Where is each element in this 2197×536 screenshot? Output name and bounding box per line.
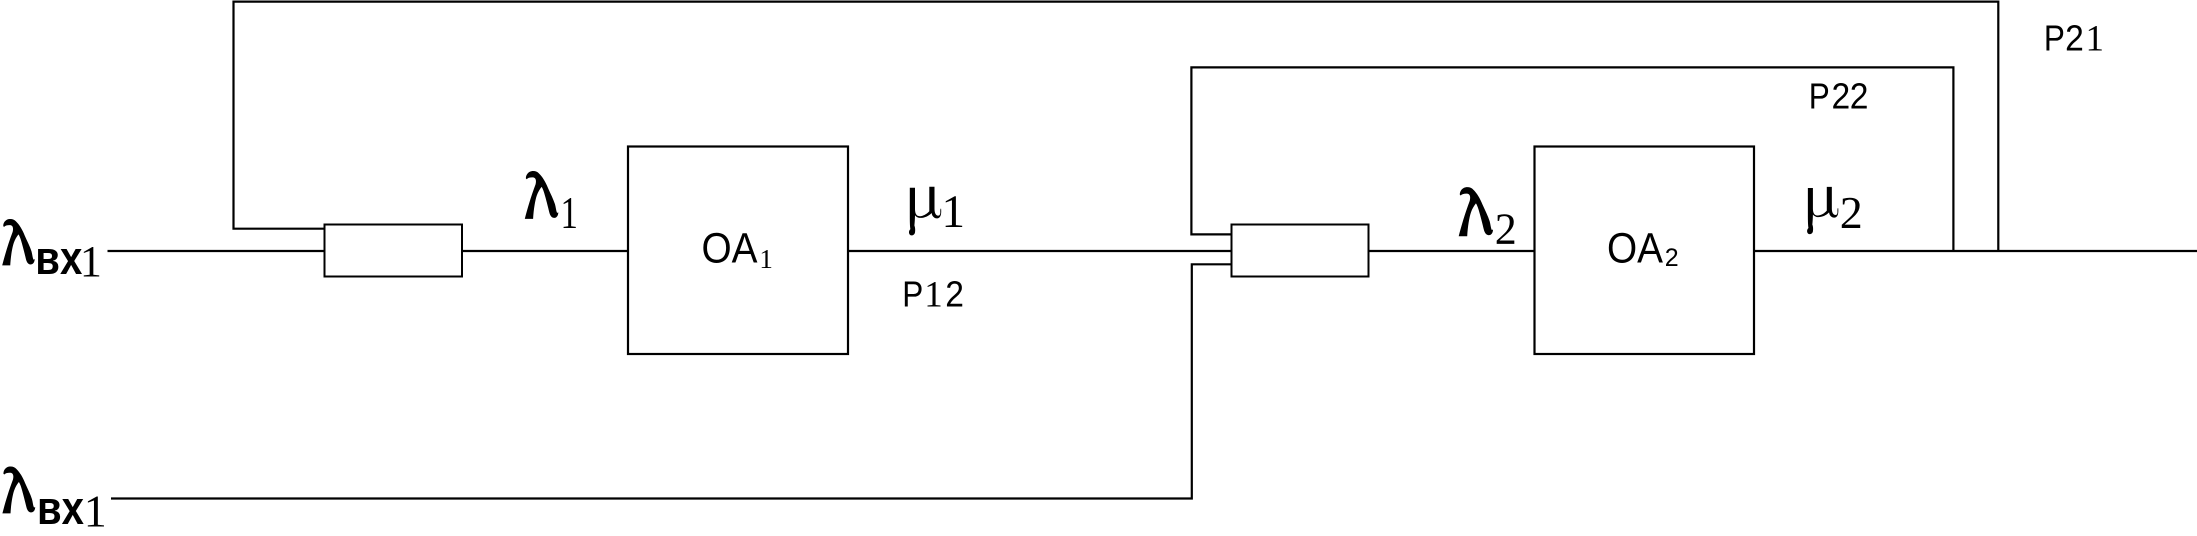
svg-text:2: 2	[1832, 75, 1851, 116]
server box OA1	[628, 147, 848, 355]
svg-text:1: 1	[2086, 19, 2105, 60]
svg-text:OA: OA	[702, 225, 758, 273]
svg-text:2: 2	[1850, 75, 1869, 116]
svg-text:1: 1	[84, 486, 107, 536]
svg-text:P: P	[1809, 75, 1830, 116]
wire input 2 (bottom line up into coupler 2)	[111, 264, 1232, 498]
svg-text:P: P	[902, 273, 923, 314]
svg-text:1: 1	[80, 237, 102, 286]
wire P21 feedback loop (OA2 output up, across top, down to coupler 1)	[234, 2, 1999, 251]
svg-text:1: 1	[759, 244, 773, 274]
svg-text:вх: вх	[37, 481, 84, 534]
svg-text:OA: OA	[1607, 225, 1663, 273]
label lambda_vx1 top input	[2, 219, 34, 265]
wire input 1 into coupler 1	[108, 250, 325, 252]
svg-text:1: 1	[942, 186, 966, 238]
wire P22 feedback loop (OA2 output up, across, down to coupler 2)	[1191, 67, 1953, 251]
wire coupler 1 to OA1	[462, 250, 629, 252]
label lambda_vx1 bottom input	[2, 466, 35, 513]
wire OA2 output to right edge	[1754, 250, 2197, 252]
label mu_2	[1807, 187, 1838, 234]
svg-text:2: 2	[1840, 187, 1863, 238]
wire coupler 2 to OA2	[1368, 250, 1535, 252]
svg-text:2: 2	[1495, 205, 1517, 254]
svg-text:1: 1	[561, 187, 578, 238]
server box OA2	[1535, 147, 1755, 355]
label lambda_1	[525, 171, 559, 219]
wire OA1 to coupler 2	[848, 250, 1232, 252]
svg-text:2: 2	[1665, 244, 1679, 272]
coupler box 2	[1232, 225, 1369, 277]
label mu_1	[909, 187, 941, 236]
svg-text:1: 1	[924, 274, 943, 315]
svg-text:2: 2	[2065, 18, 2084, 59]
label lambda_2	[1459, 187, 1493, 236]
coupler box 1	[325, 225, 463, 277]
svg-text:P: P	[2044, 18, 2065, 59]
svg-text:вх: вх	[35, 231, 82, 284]
svg-text:2: 2	[945, 273, 964, 314]
